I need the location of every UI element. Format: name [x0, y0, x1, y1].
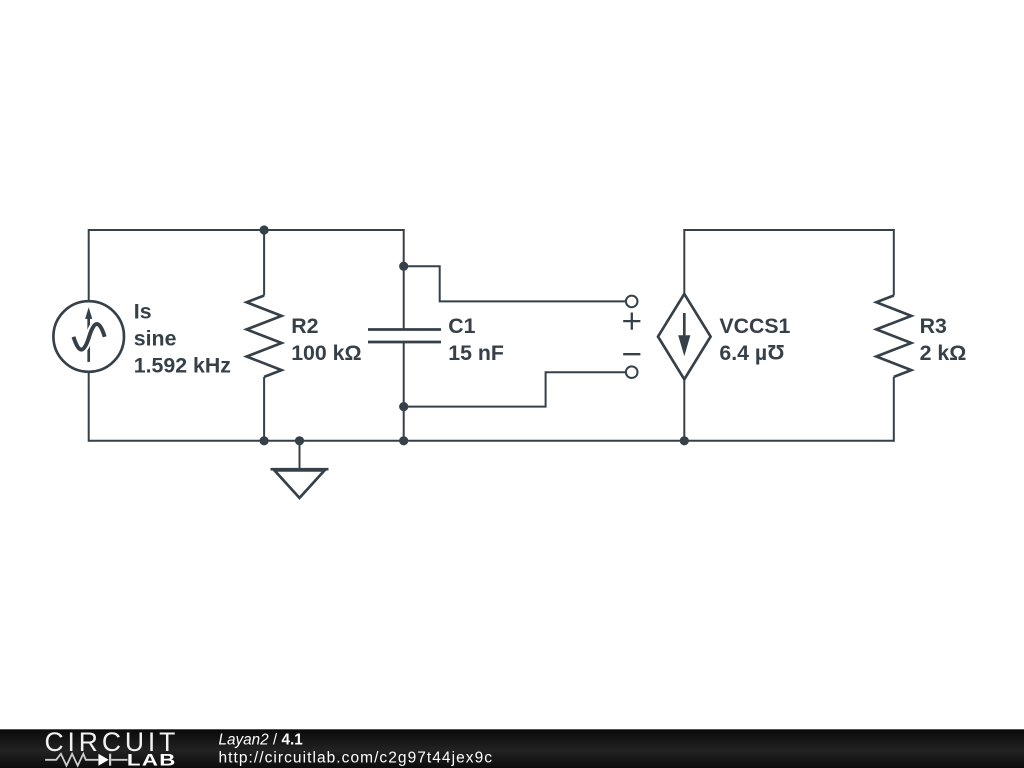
svg-text:sine: sine — [134, 327, 177, 351]
svg-text:1.592 kHz: 1.592 kHz — [134, 354, 231, 378]
svg-text:6.4 µ: 6.4 µ — [719, 341, 767, 365]
svg-text:R3: R3 — [920, 314, 947, 338]
svg-text:Layan2 / 4.1: Layan2 / 4.1 — [219, 732, 304, 749]
svg-text:100 kΩ: 100 kΩ — [291, 341, 361, 365]
svg-text:Is: Is — [134, 300, 152, 324]
svg-text:C1: C1 — [448, 314, 475, 338]
svg-text:15 nF: 15 nF — [448, 341, 504, 365]
svg-text:Ω: Ω — [767, 340, 784, 364]
svg-text:2 kΩ: 2 kΩ — [920, 341, 967, 365]
svg-text:VCCS1: VCCS1 — [719, 314, 790, 338]
svg-text:R2: R2 — [291, 314, 318, 338]
svg-text:http://circuitlab.com/c2g97t44: http://circuitlab.com/c2g97t44jex9c — [219, 749, 494, 766]
svg-text:LAB: LAB — [127, 751, 177, 768]
